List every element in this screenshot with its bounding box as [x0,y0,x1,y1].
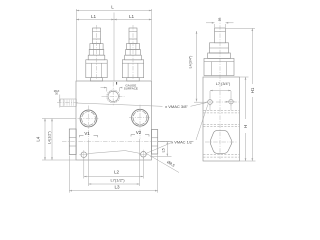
svg-text:x VMAC 3/8": x VMAC 3/8" [165,104,188,109]
dimension L4(3/4) left of side view [196,31,198,102]
dimension L1 left / L1 right [113,13,115,81]
dimension L top [75,9,77,81]
gauge port diameter dimension [106,88,108,92]
svg-text:L5: L5 [161,148,165,152]
side view: body outline [203,77,240,161]
port V2 threaded bore [132,109,149,126]
port V1 counterbore mark [80,134,84,136]
port V1 threaded bore [80,110,97,127]
svg-text:L1: L1 [91,14,97,19]
side view vertical centerline [219,17,221,159]
port V2 counterbore mark [131,134,135,136]
mounting bolt hole right [141,152,147,158]
svg-text:L1: L1 [129,14,135,19]
front cartridge neck [127,78,139,81]
side view hidden bore lines [203,110,239,112]
overall width extension lines [68,156,70,193]
front view: valve body outline [76,81,152,160]
svg-text:S: S [218,17,221,22]
svg-text:L4(3/4"): L4(3/4") [188,56,192,69]
dimension S above side cartridge [214,24,216,28]
front cartridge hex body [86,60,107,78]
side view hex plug head-on [210,131,232,154]
gauge port centerlines [102,95,125,97]
svg-text:L4: L4 [36,136,41,141]
leader from 1/4 note to side view plug [196,105,208,141]
svg-text:L: L [111,5,114,10]
side cartridge locknut [210,43,229,53]
dimension H right of side view [240,76,249,78]
front cartridge at x=133: adjust screw stem [129,28,137,44]
side cartridge washer [208,53,231,58]
side plug extension stubs [209,105,211,110]
svg-text:SURFACE: SURFACE [124,86,138,90]
front cartridge washer [88,55,105,60]
front cartridge neck [90,78,102,81]
bolt hole extension lines [83,158,85,179]
front cartridge at x=96.5: adjust screw stem [93,28,101,44]
front cartridge washer [125,55,142,60]
left side hex plug [69,129,76,155]
svg-text:V2: V2 [136,130,142,135]
leader between bolt holes [88,151,141,154]
svg-text:V1: V1 [84,131,90,136]
side cartridge stem [215,28,226,43]
dimension H1 right of side view [226,27,256,29]
front cartridge hex body [122,60,143,78]
right side hex plug [152,130,158,155]
side cartridge hex [204,58,234,75]
front cartridge centerline [96,25,98,80]
arrow to right plug [216,101,239,103]
port V1 centerlines [88,106,90,140]
mounting bolt hole left [81,152,87,158]
svg-text:L7 (3/4"): L7 (3/4") [216,82,231,86]
leader from 1/4 note to right bolt hole [146,143,172,154]
gauge port threaded circle [107,90,120,103]
svg-text:L7(1/2"): L7(1/2") [110,178,125,183]
left adjustment screw protrusion (threaded) [60,99,76,106]
side view gauge plug left [208,100,213,105]
svg-text:H: H [243,125,248,128]
port V2 centerlines [139,105,141,139]
front cartridge centerline [132,25,134,80]
side view horizontal centerline [205,141,238,143]
horizontal centerline through side plugs [62,141,172,143]
front cartridge locknut stack [90,44,103,50]
svg-text:L4(1/2"): L4(1/2") [47,131,51,144]
max extension leader [59,95,61,108]
dimension L5 right [158,141,172,143]
dimension L4 and L4(1/2") left [42,118,76,120]
svg-text:L2: L2 [114,169,120,174]
svg-text:x VMAC 1/2": x VMAC 1/2" [171,139,194,144]
dimension L2 bottom [84,176,144,178]
side view gauge plug right [229,100,233,104]
dimension L3 bottom [69,190,157,192]
svg-text:H1: H1 [250,87,255,93]
front cartridge locknut stack [126,44,139,50]
bolt hole diameter leader and label [145,153,179,173]
port centerline extensions for L7 [88,140,90,186]
svg-text:L3: L3 [114,184,120,189]
dimension L7(1/2") bottom [89,183,140,185]
